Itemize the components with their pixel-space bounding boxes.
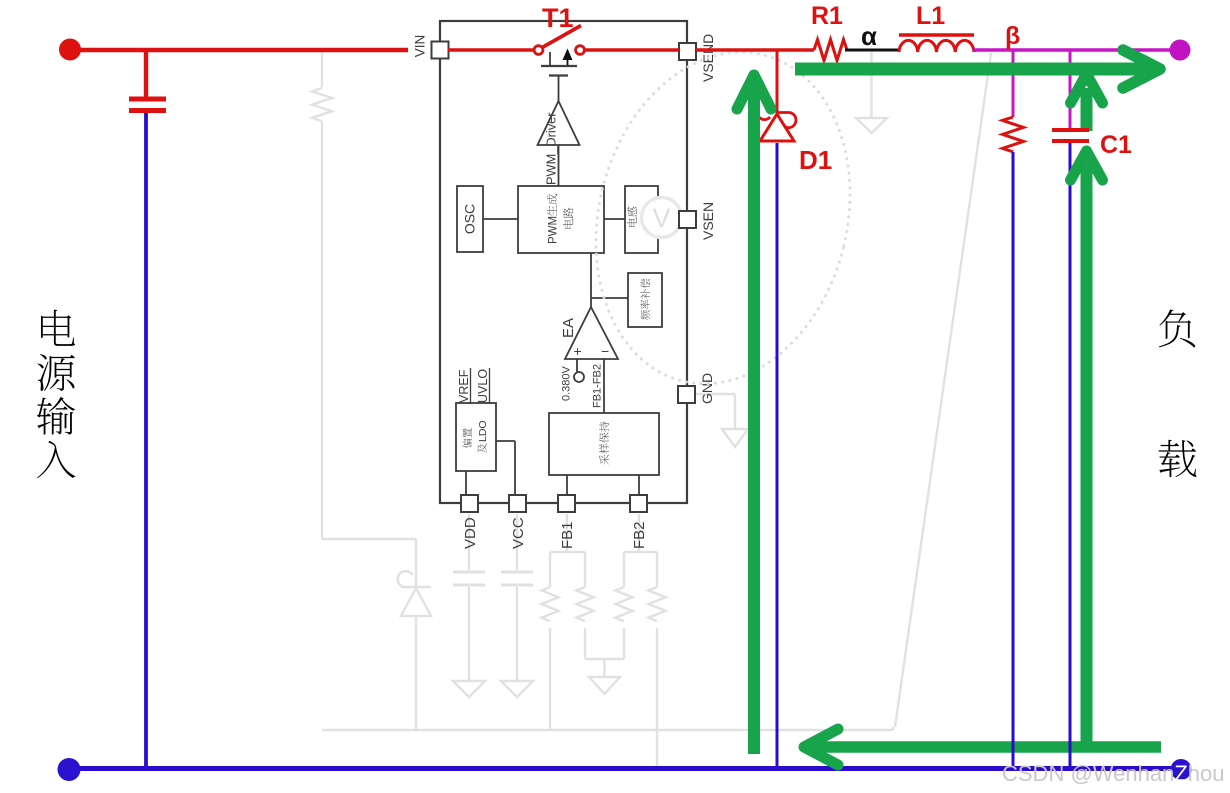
- svg-text:VCC: VCC: [510, 517, 527, 549]
- svg-text:VSEN: VSEN: [700, 202, 716, 240]
- svg-text:VREF: VREF: [457, 369, 471, 403]
- svg-text:β: β: [1005, 22, 1020, 50]
- svg-text:GND: GND: [699, 373, 715, 404]
- svg-text:R1: R1: [811, 2, 843, 30]
- svg-text:OSC: OSC: [462, 204, 478, 234]
- svg-text:α: α: [861, 21, 877, 51]
- svg-text:C1: C1: [1100, 131, 1132, 159]
- svg-text:CSDN @WenhanZhou: CSDN @WenhanZhou: [1002, 761, 1225, 786]
- svg-text:−: −: [601, 343, 609, 359]
- svg-text:LDO: LDO: [477, 420, 489, 442]
- svg-text:EA: EA: [560, 318, 577, 338]
- svg-text:D1: D1: [799, 145, 832, 175]
- svg-text:VIN: VIN: [413, 35, 428, 58]
- svg-text:FB2: FB2: [631, 521, 648, 549]
- svg-text:V: V: [652, 203, 670, 233]
- svg-text:UVLO: UVLO: [476, 369, 490, 403]
- svg-text:FB1-FB2: FB1-FB2: [592, 364, 604, 408]
- svg-text:PWM_Driver: PWM_Driver: [544, 112, 559, 185]
- svg-text:PWM: PWM: [548, 216, 560, 244]
- svg-text:FB1: FB1: [559, 521, 576, 549]
- svg-text:0.380V: 0.380V: [561, 365, 573, 401]
- svg-text:VDD: VDD: [462, 517, 479, 549]
- svg-text:+: +: [574, 343, 582, 359]
- svg-text:L1: L1: [916, 2, 945, 30]
- svg-text:T1: T1: [542, 3, 574, 33]
